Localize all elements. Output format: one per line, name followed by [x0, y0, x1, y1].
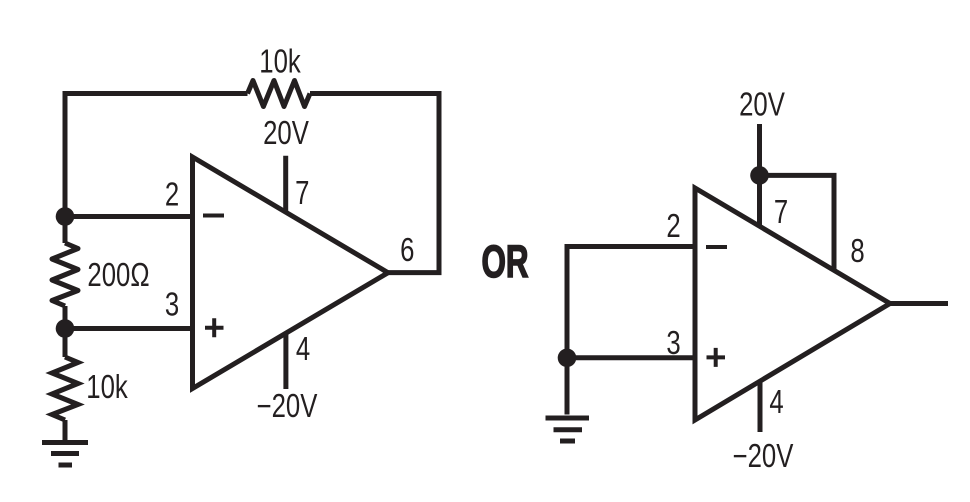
- svg-text:3: 3: [666, 325, 680, 362]
- resistor 200ohm (vertical zigzag): [52, 243, 78, 306]
- svg-text:3: 3: [165, 287, 179, 324]
- ground (left circuit): [42, 443, 88, 466]
- wire: right circuit pin 3 feed: [567, 355, 694, 360]
- wire: right circuit pin 2 feed from left rail: [567, 247, 694, 415]
- svg-text:20V: 20V: [263, 115, 309, 152]
- plus symbol non-inverting input (right op-amp): [707, 348, 726, 367]
- wire: left rail between 200ohm and 10k resistors: [63, 306, 68, 357]
- svg-text:7: 7: [774, 194, 788, 231]
- wire: output (right): [890, 301, 948, 306]
- ground (right circuit): [546, 418, 590, 441]
- op-amp U2 triangle (right): [695, 188, 890, 420]
- svg-text:10k: 10k: [86, 369, 128, 406]
- minus symbol inverting input (right op-amp): [706, 245, 727, 249]
- wire: non-inverting input pin 3 (left): [65, 326, 193, 331]
- svg-text:7: 7: [295, 175, 309, 212]
- svg-text:200Ω: 200Ω: [87, 257, 149, 294]
- wire: pin 7 to pin 8 compensation jumper: [760, 175, 835, 270]
- node junction dot on pin 3 rail (left): [56, 319, 75, 338]
- svg-text:8: 8: [850, 233, 864, 270]
- wire: left rail to ground: [63, 420, 68, 443]
- wire: pin 4 supply stub (right): [758, 381, 763, 433]
- svg-text:6: 6: [400, 232, 414, 269]
- node junction dot 20V supply (right): [750, 166, 769, 185]
- wire: left circuit top feedback left segment and left rail upper: [65, 94, 248, 244]
- svg-text:−20V: −20V: [257, 388, 318, 425]
- wire: pin 7 supply stub from 20V (right): [757, 124, 762, 227]
- wire: pin 7 supply stub (left): [283, 156, 288, 213]
- svg-text:−20V: −20V: [733, 438, 794, 475]
- svg-text:OR: OR: [481, 237, 528, 287]
- svg-text:2: 2: [165, 177, 179, 214]
- svg-text:20V: 20V: [739, 87, 785, 124]
- resistor R feedback 10k (horizontal zigzag): [248, 81, 311, 107]
- plus symbol non-inverting input (left op-amp): [205, 318, 224, 337]
- minus symbol inverting input (left op-amp): [203, 214, 224, 218]
- wire: feedback top right segment, right rail down, output to pin 6: [310, 94, 439, 273]
- node junction dot input ground rail (right): [558, 349, 577, 368]
- svg-text:2: 2: [666, 208, 680, 245]
- node junction dot on pin 2 rail (left): [56, 207, 75, 226]
- resistor 10k lower (vertical zigzag): [52, 357, 78, 420]
- op-amp U1 triangle (left): [193, 157, 389, 389]
- wire: pin 4 supply stub (left): [283, 333, 288, 390]
- svg-text:10k: 10k: [259, 44, 301, 81]
- svg-text:4: 4: [769, 384, 783, 421]
- svg-text:4: 4: [296, 331, 310, 368]
- wire: inverting input pin 2 (left): [65, 214, 193, 219]
